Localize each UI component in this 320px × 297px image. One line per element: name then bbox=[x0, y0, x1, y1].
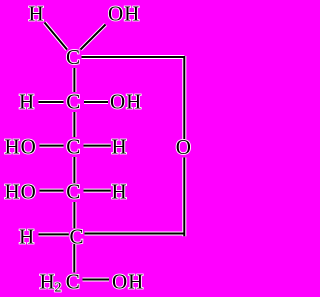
svg-text:H: H bbox=[112, 180, 128, 204]
svg-text:OH: OH bbox=[112, 270, 144, 294]
svg-text:H: H bbox=[19, 225, 35, 249]
svg-text:H: H bbox=[40, 270, 56, 294]
svg-text:2: 2 bbox=[55, 281, 63, 296]
svg-text:OH: OH bbox=[110, 90, 142, 114]
svg-text:OH: OH bbox=[108, 2, 140, 26]
svg-text:H: H bbox=[112, 135, 128, 159]
svg-text:C: C bbox=[66, 45, 81, 69]
svg-text:HO: HO bbox=[5, 135, 37, 159]
svg-text:C: C bbox=[70, 225, 85, 249]
svg-text:O: O bbox=[176, 135, 192, 159]
svg-text:C: C bbox=[66, 180, 81, 204]
svg-text:C: C bbox=[66, 90, 81, 114]
svg-text:H: H bbox=[19, 90, 35, 114]
svg-text:HO: HO bbox=[5, 180, 37, 204]
svg-text:H: H bbox=[29, 2, 45, 26]
svg-text:C: C bbox=[66, 270, 81, 294]
svg-text:C: C bbox=[66, 135, 81, 159]
